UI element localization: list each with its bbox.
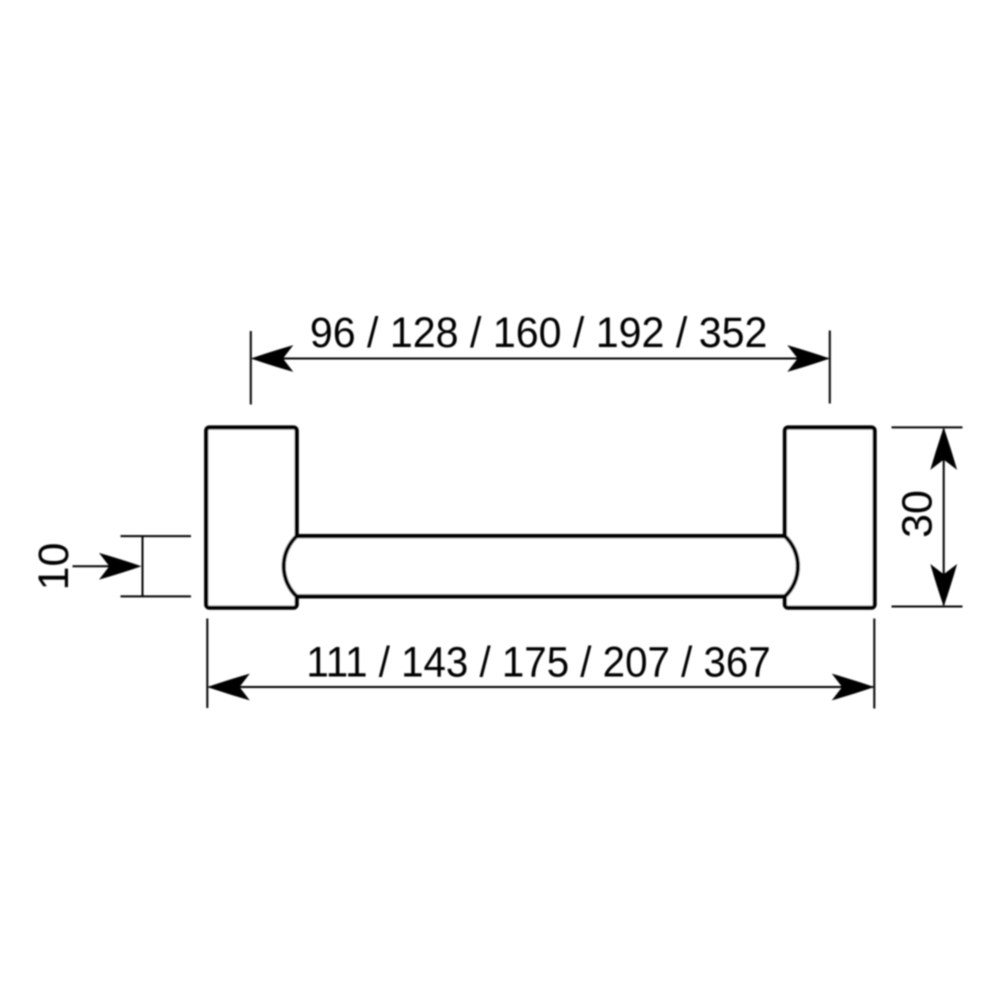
- svg-text:10: 10: [30, 543, 78, 591]
- right dimension (30): arrow down: [930, 564, 957, 607]
- svg-text:111 / 143 / 175 / 207 / 367: 111 / 143 / 175 / 207 / 367: [306, 637, 770, 686]
- right dimension (30): top tick line: [892, 426, 963, 428]
- left dimension (10): boundary vertical line: [142, 536, 144, 596]
- svg-text:96 / 128 / 160 / 192 / 352: 96 / 128 / 160 / 192 / 352: [310, 308, 768, 356]
- right dimension (30): bottom tick line: [892, 606, 963, 608]
- right post (wall plate): [785, 428, 875, 608]
- left dimension (10): bottom tick line: [121, 595, 192, 597]
- bottom dimension: left extension line: [206, 619, 208, 709]
- left dimension (10): leader line: [73, 565, 121, 567]
- bottom dimension arrow left: [207, 674, 250, 701]
- bottom dimension: right extension line: [873, 619, 875, 709]
- right dimension (30): dimension line: [943, 429, 945, 605]
- top dimension arrow right: [787, 345, 830, 372]
- left dimension (10): top tick line: [121, 535, 192, 537]
- top dimension: left extension line: [250, 331, 252, 405]
- bottom dimension line: [209, 686, 873, 688]
- bar (handle tube with end fillets): [284, 536, 798, 596]
- bottom dimension arrow right: [832, 674, 875, 701]
- left dimension (10): arrow right: [99, 553, 142, 580]
- top dimension line: [253, 358, 828, 360]
- left post (wall plate): [206, 428, 297, 608]
- svg-text:30: 30: [894, 490, 942, 538]
- top dimension: right extension line: [829, 331, 831, 404]
- top dimension arrow left: [251, 345, 293, 372]
- right dimension (30): arrow up: [930, 427, 957, 470]
